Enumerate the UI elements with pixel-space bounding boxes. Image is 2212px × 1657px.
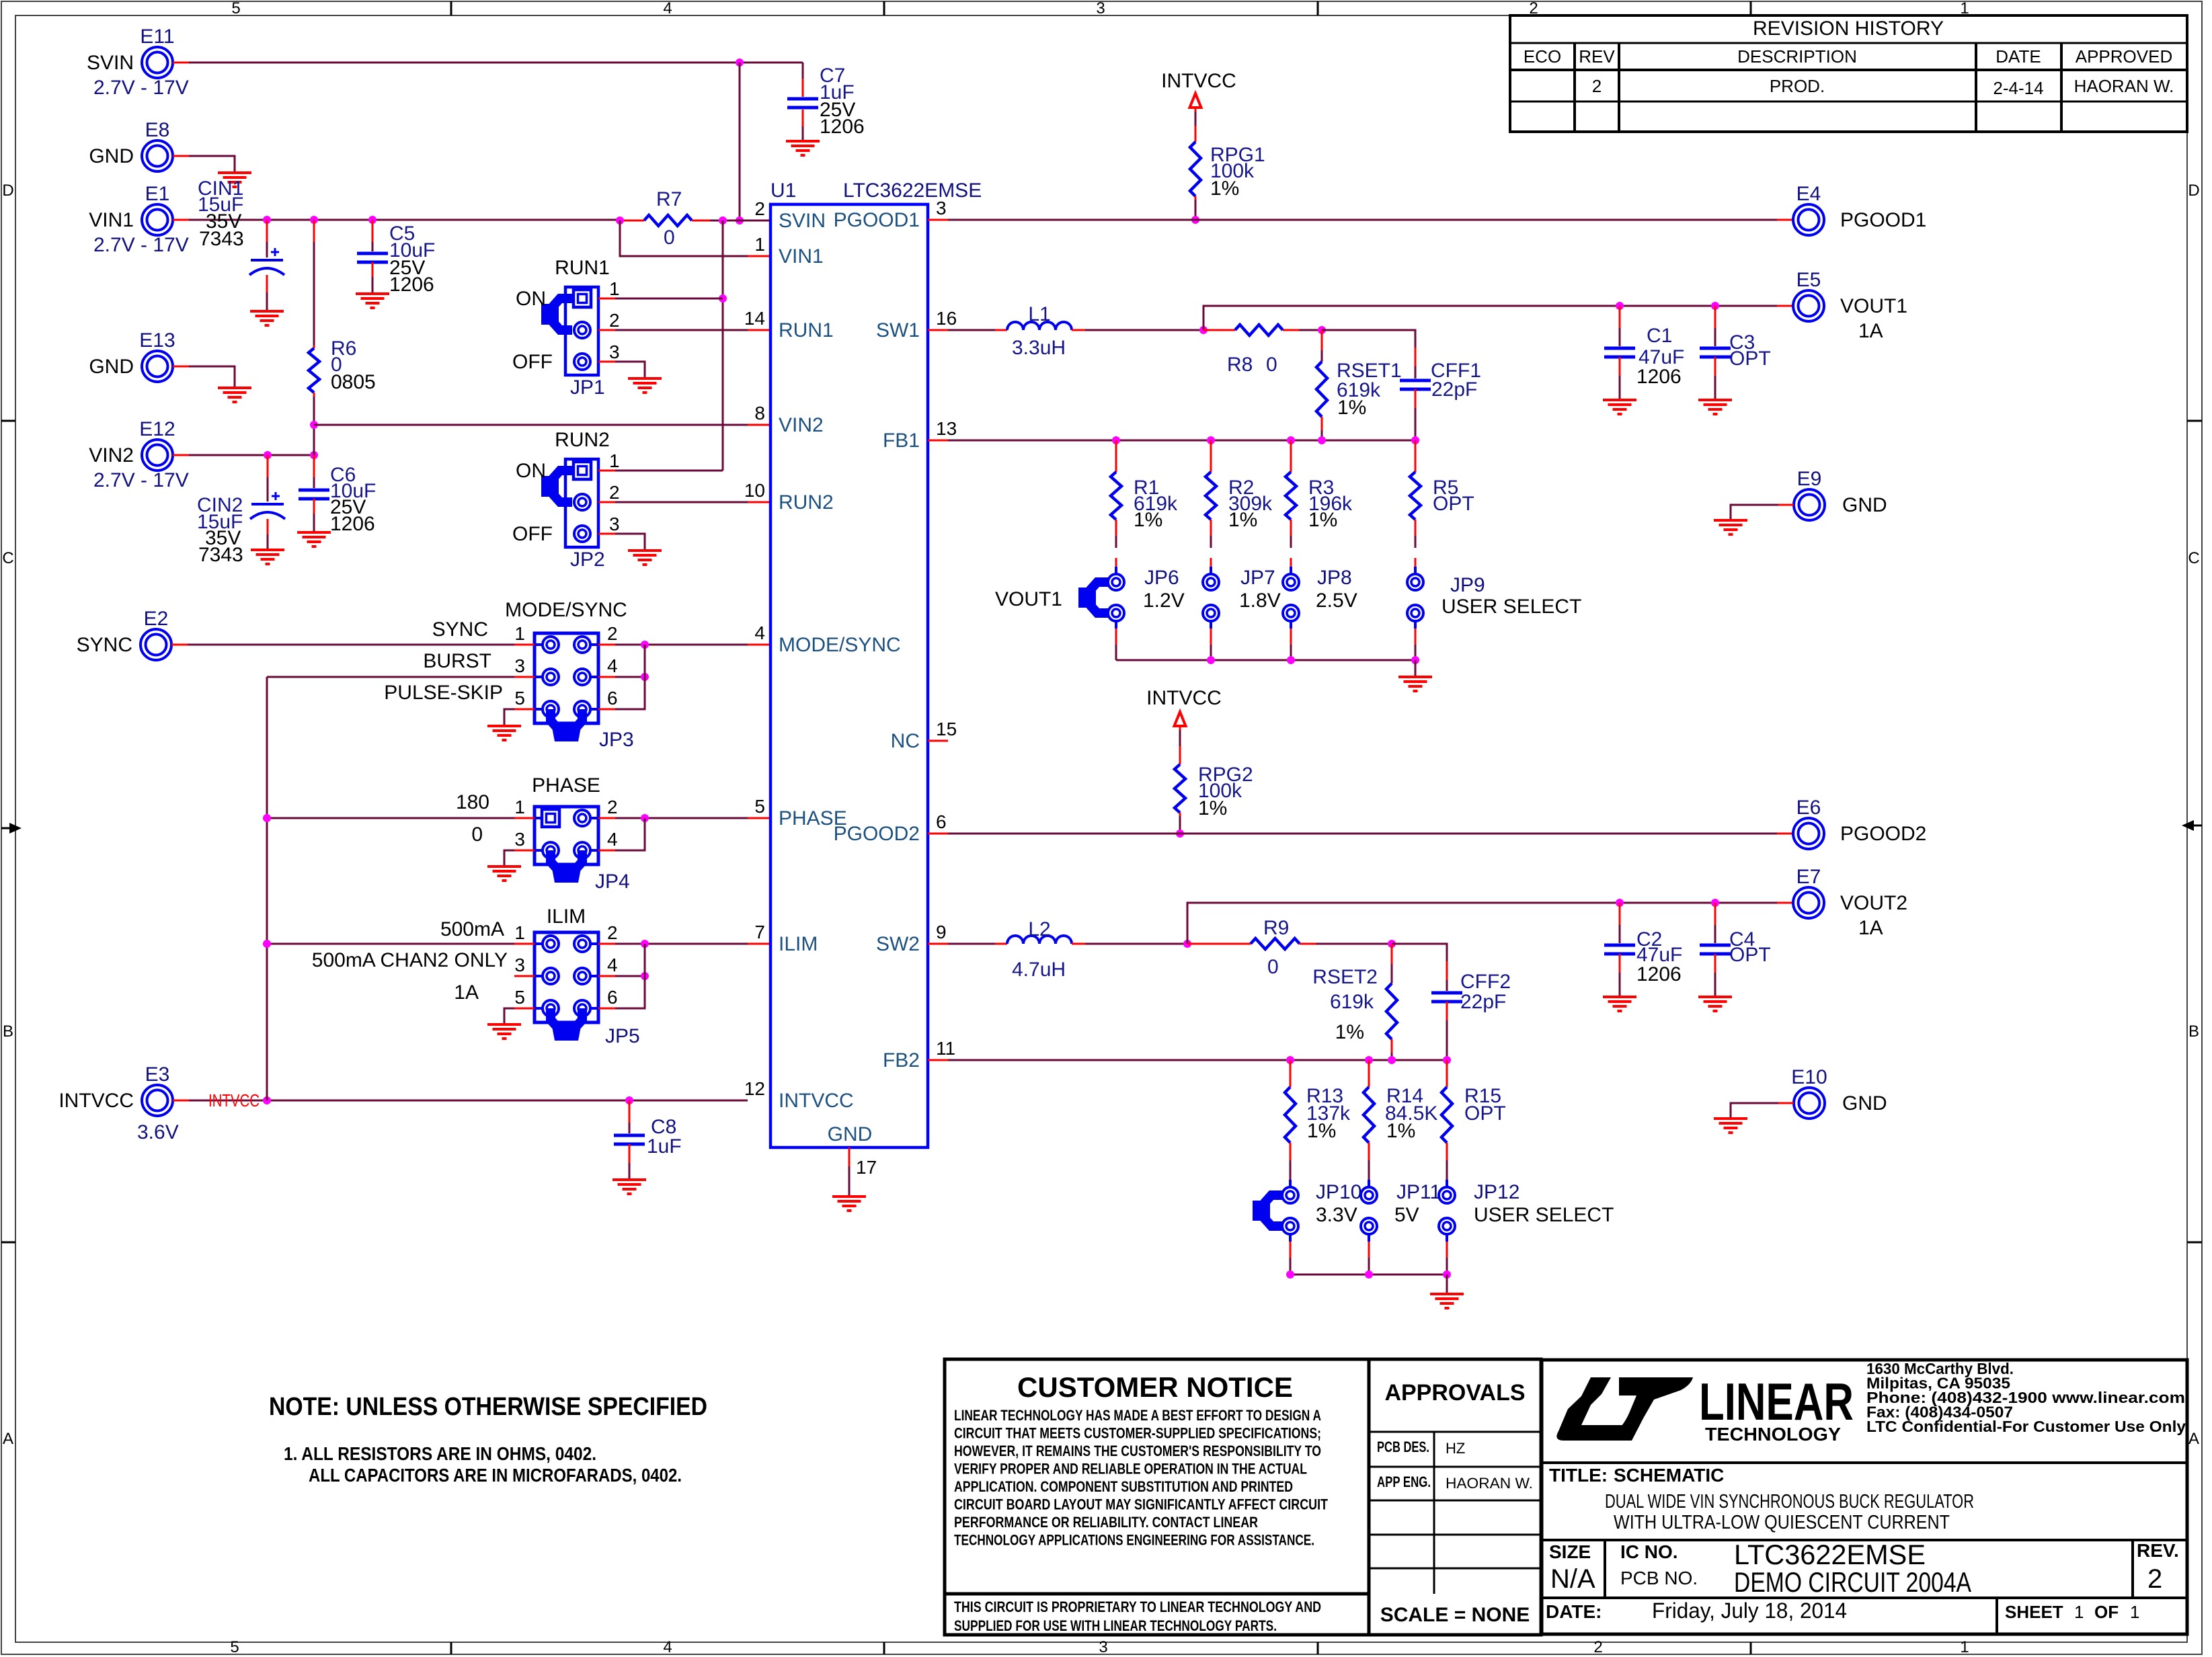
ground at E10 (1714, 1117, 1747, 1120)
svg-text:3: 3 (514, 955, 525, 975)
JP4 shunt bottom (551, 850, 582, 868)
junction SW1 node (1199, 326, 1208, 334)
svg-text:RSET2: RSET2 (1312, 966, 1378, 988)
ground at C7 (786, 140, 820, 143)
svg-text:L1: L1 (1028, 303, 1050, 325)
svg-text:1%: 1% (1134, 509, 1162, 531)
svg-text:E8: E8 (145, 119, 170, 141)
svg-text:1: 1 (2130, 1602, 2139, 1622)
svg-text:2.7V - 17V: 2.7V - 17V (93, 234, 189, 256)
svg-text:2.7V - 17V: 2.7V - 17V (93, 77, 189, 99)
svg-text:ON: ON (516, 288, 546, 310)
svg-text:1206: 1206 (389, 274, 434, 296)
svg-text:2: 2 (607, 797, 618, 817)
title block grid (1542, 1360, 2187, 1634)
ground at JP12 rail (1430, 1293, 1464, 1295)
JP3 pin2 wire (598, 644, 615, 646)
svg-text:L2: L2 (1028, 918, 1050, 940)
svg-text:R8: R8 (1227, 354, 1253, 376)
svg-text:GND: GND (89, 356, 134, 378)
svg-text:JP3: JP3 (599, 729, 634, 751)
svg-text:5: 5 (231, 0, 240, 17)
wire E8 to ground (173, 155, 189, 157)
svg-text:2: 2 (607, 623, 618, 644)
JP12 pads (1446, 1180, 1448, 1187)
JP5 pin6 wire (598, 1008, 615, 1010)
JP1 pin1 wire (598, 298, 615, 300)
right border arrow (2190, 825, 2202, 827)
svg-text:2: 2 (1593, 1638, 1602, 1656)
capacitor C1 (1619, 306, 1621, 328)
svg-text:PGOOD2: PGOOD2 (834, 823, 920, 845)
svg-text:SVIN: SVIN (779, 210, 826, 232)
svg-text:1.8V: 1.8V (1239, 590, 1281, 612)
svg-text:GND: GND (89, 145, 134, 167)
junction FB2-R13 (1286, 1056, 1294, 1064)
JP3 pads row 2 (543, 669, 559, 685)
capacitor CIN1 (266, 220, 268, 242)
JP2 pin1 wire (598, 470, 615, 472)
svg-text:1: 1 (514, 623, 525, 644)
svg-text:E12: E12 (139, 418, 175, 440)
svg-text:3: 3 (609, 514, 620, 534)
ground at JP3 (487, 725, 521, 727)
svg-text:USER SELECT: USER SELECT (1441, 596, 1581, 618)
test point E8 GND (142, 140, 173, 171)
resistor RSET1 (1321, 330, 1323, 350)
svg-text:JP10: JP10 (1316, 1181, 1361, 1203)
resistor R9 (1187, 943, 1203, 945)
test point E3 INTVCC (142, 1085, 173, 1116)
svg-text:HAORAN W.: HAORAN W. (2074, 76, 2174, 96)
inductor L2 (1007, 936, 1072, 944)
JP4 pads (574, 810, 590, 826)
junction RUN1 tap (719, 294, 727, 302)
svg-text:5: 5 (514, 688, 525, 709)
JP2 pin 1 square (574, 462, 591, 479)
svg-text:LINEAR TECHNOLOGY HAS MADE A B: LINEAR TECHNOLOGY HAS MADE A BEST EFFORT… (954, 1407, 1321, 1424)
svg-text:ALL CAPACITORS ARE IN MICROFAR: ALL CAPACITORS ARE IN MICROFARADS, 0402. (309, 1465, 682, 1486)
left border arrow (1, 827, 13, 830)
junction FB2-R15 (1443, 1056, 1451, 1064)
JP5 pads row 1 (543, 936, 559, 952)
svg-text:4.7uH: 4.7uH (1012, 959, 1066, 981)
jumper JP3 box (535, 633, 598, 723)
svg-text:NOTE: UNLESS OTHERWISE SPECIFI: NOTE: UNLESS OTHERWISE SPECIFIED (269, 1393, 707, 1421)
junction R8-RSET1 (1318, 326, 1326, 334)
test point E5 VOUT1 (1793, 290, 1824, 321)
svg-text:1%: 1% (1335, 1021, 1364, 1043)
svg-text:PGOOD1: PGOOD1 (1840, 209, 1926, 231)
ground at C8 (613, 1178, 646, 1181)
svg-text:MODE/SYNC: MODE/SYNC (505, 599, 627, 621)
svg-text:WITH ULTRA-LOW QUIESCENT CURRE: WITH ULTRA-LOW QUIESCENT CURRENT (1614, 1512, 1950, 1533)
svg-text:SVIN: SVIN (87, 52, 134, 74)
junction VIN2-C6 (310, 451, 318, 459)
svg-text:CUSTOMER NOTICE: CUSTOMER NOTICE (1017, 1371, 1293, 1403)
junction FB2-R14 (1365, 1056, 1373, 1064)
JP3 shunt bottom (551, 709, 582, 727)
resistor R3 (1290, 440, 1292, 472)
JP4 pin3 wire to gnd (514, 850, 535, 852)
resistor R14 (1368, 1060, 1370, 1087)
LT logo mark (1556, 1377, 1628, 1441)
svg-text:INTVCC: INTVCC (208, 1090, 260, 1110)
svg-text:A: A (3, 1430, 13, 1448)
JP1 pin 2 pad (574, 322, 590, 338)
svg-text:7343: 7343 (199, 228, 244, 250)
capacitor C2 (1619, 903, 1621, 925)
wire E10 to ground (1778, 1102, 1794, 1104)
svg-text:TECHNOLOGY APPLICATIONS ENGINE: TECHNOLOGY APPLICATIONS ENGINEERING FOR … (954, 1532, 1314, 1549)
junction VOUT2-C4 (1711, 899, 1719, 907)
svg-text:C1: C1 (1647, 325, 1672, 347)
capacitor CFF2 (1446, 961, 1448, 980)
wire VIN2 pin8 row (313, 425, 315, 455)
resistor R15 (1446, 1060, 1448, 1087)
JP5 pads row 2 (543, 968, 559, 984)
svg-text:CIRCUIT BOARD LAYOUT MAY SIGNI: CIRCUIT BOARD LAYOUT MAY SIGNIFICANTLY A… (954, 1496, 1328, 1513)
capacitor C3 (1714, 306, 1716, 328)
test point E13 GND (142, 351, 173, 382)
svg-text:TITLE:: TITLE: (1549, 1465, 1608, 1486)
svg-text:VIN2: VIN2 (89, 444, 134, 467)
junction JP5 pin4 (641, 972, 649, 980)
wire L2 to junction (1072, 943, 1085, 945)
wire VIN1 row (173, 219, 189, 221)
junction JP3 pin2 (641, 641, 649, 649)
junction RPG2-PGOOD2 (1176, 830, 1184, 838)
ground at C6 (297, 531, 331, 534)
svg-text:PULSE-SKIP: PULSE-SKIP (384, 682, 503, 704)
svg-text:B: B (2188, 1022, 2199, 1041)
ground at JP4 (487, 865, 521, 868)
inductor L1 (1007, 322, 1072, 330)
svg-text:1: 1 (514, 922, 525, 943)
resistor R7 (620, 220, 628, 222)
wire rail to ground (1415, 660, 1417, 677)
JP6 pads (1115, 558, 1117, 567)
svg-text:RUN1: RUN1 (555, 257, 610, 279)
junction INTVCC C8 (625, 1096, 633, 1104)
svg-text:13: 13 (936, 418, 957, 439)
svg-text:SHEET: SHEET (2005, 1602, 2063, 1622)
ground at C4 (1698, 996, 1732, 998)
JP10 shunt (1265, 1195, 1283, 1226)
ground at JP2 (628, 549, 662, 552)
test point E12 VIN2 (142, 440, 173, 471)
svg-text:BURST: BURST (423, 650, 491, 672)
ground at E13 (218, 387, 251, 389)
wire rail2 to ground (1446, 1275, 1448, 1294)
svg-text:SCALE = NONE: SCALE = NONE (1380, 1604, 1530, 1626)
JP9 pads (1415, 558, 1417, 567)
U1 pin 17 GND stub (848, 1147, 851, 1166)
svg-text:CFF2: CFF2 (1460, 971, 1511, 993)
svg-text:VIN1: VIN1 (779, 245, 824, 268)
svg-text:RUN2: RUN2 (555, 429, 610, 451)
svg-text:500mA CHAN2 ONLY: 500mA CHAN2 ONLY (312, 949, 508, 971)
junction rail-JP8 (1287, 656, 1295, 664)
ground at C2 (1603, 996, 1636, 998)
svg-text:VOUT2: VOUT2 (1840, 892, 1907, 914)
U1 pin 15 NC stub (928, 740, 948, 742)
svg-text:14: 14 (744, 308, 765, 329)
wire PGOOD1 row (928, 219, 948, 221)
svg-text:APPLICATION. COMPONENT SUBSTI: APPLICATION. COMPONENT SUBSTITUTION AND … (954, 1478, 1293, 1495)
svg-text:LTC3622EMSE: LTC3622EMSE (843, 179, 982, 202)
svg-text:3: 3 (609, 341, 620, 362)
resistor R8 (1203, 329, 1220, 331)
svg-text:PERFORMANCE OR RELIABILITY. C: PERFORMANCE OR RELIABILITY. CONTACT LINE… (954, 1514, 1258, 1531)
capacitor C8 (629, 1100, 631, 1123)
svg-text:1206: 1206 (820, 116, 865, 138)
svg-text:INTVCC: INTVCC (1146, 687, 1222, 709)
svg-text:JP1: JP1 (570, 376, 605, 399)
JP3 pads row 1 (543, 637, 559, 653)
JP5 pin4 wire (598, 975, 615, 977)
svg-text:1206: 1206 (330, 513, 375, 535)
svg-text:1A: 1A (1858, 917, 1883, 939)
jumper JP5 box (535, 932, 598, 1022)
wire SW2 to L2 (928, 943, 948, 945)
svg-text:3: 3 (514, 829, 525, 850)
svg-text:OPT: OPT (1729, 348, 1771, 370)
resistor R1 (1115, 440, 1117, 472)
svg-text:15: 15 (936, 719, 957, 739)
svg-text:E5: E5 (1796, 269, 1821, 291)
svg-text:1%: 1% (1228, 509, 1257, 531)
wire JP6-9 bottom rail (1116, 659, 1415, 661)
JP5 pin3 stub (514, 975, 535, 977)
wire FB1 row (928, 440, 948, 442)
junction JP3 pin4 (641, 673, 649, 681)
svg-text:1%: 1% (1386, 1120, 1415, 1142)
svg-text:E10: E10 (1791, 1066, 1827, 1088)
svg-text:11: 11 (936, 1038, 955, 1059)
svg-text:2: 2 (607, 922, 618, 943)
svg-text:ILIM: ILIM (779, 933, 818, 955)
svg-text:PCB NO.: PCB NO. (1620, 1568, 1698, 1588)
junction rail-JP9 (1411, 656, 1419, 664)
junction R9-RSET2 (1388, 940, 1396, 948)
wire E11 to C7 (173, 62, 189, 64)
svg-text:3: 3 (936, 198, 947, 218)
JP5 shunt bottom (551, 1008, 582, 1026)
svg-text:6: 6 (936, 811, 947, 832)
svg-text:TECHNOLOGY: TECHNOLOGY (1705, 1424, 1841, 1445)
junction VOUT2-C2 (1616, 899, 1624, 907)
wire E13 to ground (173, 366, 189, 368)
svg-text:RUN1: RUN1 (779, 319, 834, 341)
svg-text:HZ: HZ (1446, 1440, 1465, 1457)
svg-text:OF: OF (2094, 1602, 2119, 1622)
svg-text:APPROVED: APPROVED (2076, 46, 2173, 67)
wire SW1 to L1 (928, 329, 948, 331)
svg-text:10: 10 (744, 480, 765, 501)
svg-text:1: 1 (1960, 1638, 1969, 1656)
svg-text:JP4: JP4 (595, 871, 630, 893)
svg-text:2-4-14: 2-4-14 (1993, 78, 2043, 98)
svg-text:ECO: ECO (1524, 46, 1561, 67)
capacitor C4 (1714, 903, 1716, 925)
junction VOUT1-C1 (1616, 302, 1624, 310)
ground at CIN1 (250, 310, 284, 313)
capacitor C7 (802, 63, 804, 79)
svg-text:2: 2 (609, 482, 620, 503)
svg-text:USER SELECT: USER SELECT (1474, 1204, 1614, 1226)
svg-text:JP9: JP9 (1450, 574, 1485, 596)
customer notice block (945, 1359, 1541, 1635)
svg-text:DESCRIPTION: DESCRIPTION (1737, 46, 1857, 67)
ground at JP9 rail (1398, 676, 1432, 678)
resistor RPG2 (1179, 746, 1181, 764)
JP4 pin1 wire PHASE (514, 817, 535, 819)
wire E9 to ground (1778, 504, 1794, 506)
svg-text:RUN2: RUN2 (779, 491, 834, 514)
junction R6-VIN2row (310, 421, 318, 429)
svg-text:VOUT1: VOUT1 (1840, 295, 1907, 317)
svg-text:INTVCC: INTVCC (58, 1090, 134, 1112)
junction VIN1-C5 (368, 216, 377, 224)
svg-text:1: 1 (754, 234, 765, 255)
border zone ticks (450, 1, 452, 15)
svg-text:SYNC: SYNC (77, 634, 132, 656)
capacitor C6 (313, 455, 315, 477)
svg-text:N/A: N/A (1550, 1564, 1595, 1594)
junction VIN1-CIN1 (263, 216, 271, 224)
junction FB1-R1 (1112, 436, 1120, 444)
svg-text:VIN1: VIN1 (89, 209, 134, 231)
wire R8 to CFF1 (1322, 330, 1415, 348)
junction rail2-JP11 (1365, 1270, 1373, 1279)
svg-text:SCHEMATIC: SCHEMATIC (1614, 1465, 1724, 1486)
svg-text:22pF: 22pF (1431, 378, 1477, 401)
junction PHASE column (263, 814, 271, 822)
svg-text:1: 1 (609, 450, 620, 471)
JP11 pads (1368, 1180, 1370, 1187)
svg-text:2: 2 (609, 310, 620, 331)
svg-text:SUPPLIED FOR USE WITH LINEAR T: SUPPLIED FOR USE WITH LINEAR TECHNOLOGY … (954, 1617, 1277, 1634)
capacitor CFF1 (1415, 348, 1417, 366)
svg-text:2: 2 (1592, 76, 1602, 96)
svg-text:JP5: JP5 (605, 1025, 640, 1047)
wire FB2 row (928, 1059, 948, 1061)
test point E1 VIN1 (142, 204, 173, 235)
svg-text:REV: REV (1579, 46, 1615, 67)
wire SVIN drop (739, 63, 741, 220)
junction JP4 pin2 (641, 814, 649, 822)
svg-text:R9: R9 (1263, 917, 1289, 939)
wire VIN1 to pin1 (620, 220, 748, 256)
wire RUN column (722, 220, 724, 471)
wire VOUT2 riser (1187, 903, 1777, 944)
ground at CIN2 (251, 549, 284, 551)
svg-text:JP7: JP7 (1240, 567, 1275, 589)
JP1 shunt ON (554, 298, 572, 330)
svg-text:GND: GND (1842, 1092, 1887, 1115)
wire JP10-12 bottom rail (1290, 1274, 1447, 1276)
JP2 shunt ON (554, 471, 572, 502)
JP2 pin 3 pad (574, 526, 590, 542)
svg-text:9: 9 (936, 922, 947, 942)
svg-text:LTC3622EMSE: LTC3622EMSE (1734, 1539, 1926, 1570)
svg-text:SYNC: SYNC (432, 618, 488, 641)
svg-text:VERIFY PROPER AND RELIABLE OPE: VERIFY PROPER AND RELIABLE OPERATION IN … (954, 1461, 1307, 1478)
wire R9 to CFF2 (1392, 944, 1447, 961)
junction rail2-JP12 (1443, 1270, 1451, 1279)
svg-text:B: B (3, 1022, 13, 1041)
wire L1 to junction (1072, 329, 1085, 331)
svg-text:1: 1 (609, 278, 620, 299)
jumper JP1 box (565, 287, 598, 375)
svg-text:1. ALL RESISTORS ARE IN OHMS,: 1. ALL RESISTORS ARE IN OHMS, 0402. (284, 1443, 596, 1464)
JP10 pads (1289, 1180, 1292, 1187)
svg-text:PGOOD1: PGOOD1 (834, 209, 920, 231)
svg-text:NC: NC (891, 730, 920, 752)
svg-text:REV.: REV. (2137, 1540, 2179, 1561)
test point E11 SVIN (142, 47, 173, 78)
svg-text:U1: U1 (771, 179, 796, 202)
svg-text:D: D (2188, 181, 2199, 200)
border side ticks (1, 420, 15, 422)
JP4 pin2 wire (598, 817, 615, 819)
revision history table (1510, 15, 2187, 132)
svg-text:5V: 5V (1394, 1204, 1419, 1226)
test point E7 VOUT2 (1793, 887, 1824, 918)
svg-text:CIRCUIT THAT MEETS CUSTOMER-SU: CIRCUIT THAT MEETS CUSTOMER-SUPPLIED SPE… (954, 1425, 1321, 1442)
svg-text:OFF: OFF (512, 523, 553, 545)
jumper JP2 box (565, 459, 598, 547)
junction JP5 pin2 (641, 940, 649, 948)
junction SW2 node (1183, 940, 1191, 948)
svg-text:REVISION HISTORY: REVISION HISTORY (1753, 17, 1944, 40)
svg-text:JP8: JP8 (1317, 567, 1352, 589)
svg-text:2: 2 (2147, 1564, 2162, 1594)
svg-text:SW1: SW1 (876, 319, 920, 341)
svg-text:180: 180 (456, 791, 489, 813)
junction FB2-RSET2 bottom (1388, 1056, 1396, 1064)
JP3 pin1 stub (514, 644, 535, 646)
svg-text:1A: 1A (1858, 320, 1883, 342)
JP1 pin2 wire to RUN1 (598, 329, 615, 331)
svg-text:1206: 1206 (1636, 963, 1682, 985)
svg-text:JP2: JP2 (570, 549, 605, 571)
ground at C3 (1698, 399, 1732, 401)
svg-text:1.2V: 1.2V (1143, 590, 1185, 612)
svg-text:4: 4 (607, 955, 618, 975)
svg-text:1uF: 1uF (647, 1135, 682, 1158)
svg-text:JP12: JP12 (1474, 1181, 1519, 1203)
svg-text:OPT: OPT (1433, 493, 1474, 515)
JP5 pin5 wire to gnd (514, 1008, 535, 1010)
junction ILIM column (263, 940, 271, 948)
svg-text:DEMO CIRCUIT 2004A: DEMO CIRCUIT 2004A (1734, 1566, 1971, 1598)
junction FB1-R3 (1287, 436, 1295, 444)
resistor R2 (1210, 440, 1212, 472)
svg-text:MODE/SYNC: MODE/SYNC (779, 634, 901, 656)
svg-text:619k: 619k (1330, 991, 1374, 1013)
jumper JP4 box (535, 807, 598, 864)
svg-text:FB2: FB2 (883, 1049, 920, 1072)
svg-text:3: 3 (1096, 0, 1105, 17)
wire SYNC row (171, 644, 188, 646)
svg-text:VOUT1: VOUT1 (995, 588, 1062, 610)
junction rail2-JP10 (1286, 1270, 1294, 1279)
resistor RPG1 (1195, 126, 1197, 142)
svg-text:OPT: OPT (1729, 944, 1771, 966)
ground at JP1 (628, 377, 662, 380)
